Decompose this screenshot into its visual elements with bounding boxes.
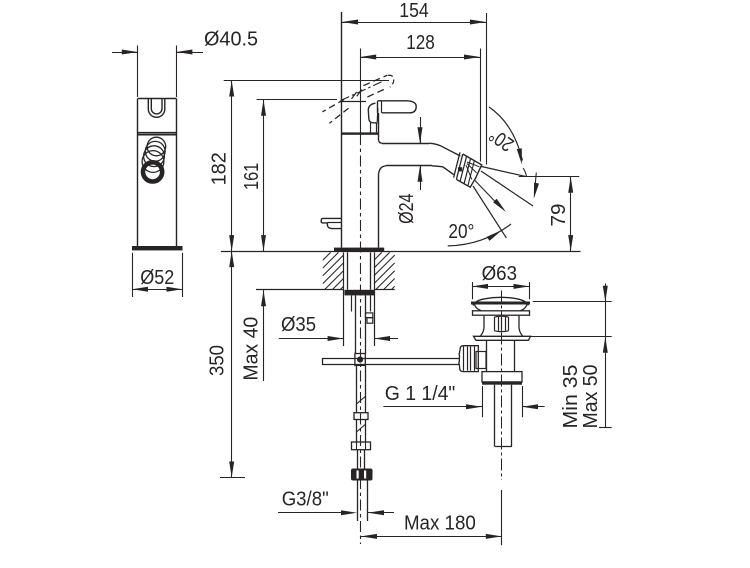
svg-text:79: 79	[548, 204, 570, 227]
svg-text:Max 50: Max 50	[580, 365, 602, 429]
svg-text:Ø24: Ø24	[396, 194, 418, 224]
svg-text:161: 161	[241, 163, 263, 190]
svg-text:Max 40: Max 40	[241, 317, 263, 381]
svg-text:G3/8": G3/8"	[282, 489, 329, 511]
svg-text:Max 180: Max 180	[404, 513, 476, 535]
svg-text:Ø52: Ø52	[140, 267, 174, 289]
svg-text:128: 128	[406, 32, 435, 54]
svg-text:182: 182	[209, 152, 231, 185]
svg-text:Ø40.5: Ø40.5	[204, 29, 258, 51]
svg-text:Ø35: Ø35	[281, 314, 316, 336]
svg-text:350: 350	[207, 345, 229, 376]
svg-text:20°: 20°	[448, 221, 474, 243]
svg-text:G 1 1/4": G 1 1/4"	[385, 383, 456, 405]
svg-text:Ø63: Ø63	[482, 263, 517, 285]
svg-text:154: 154	[399, 0, 429, 22]
